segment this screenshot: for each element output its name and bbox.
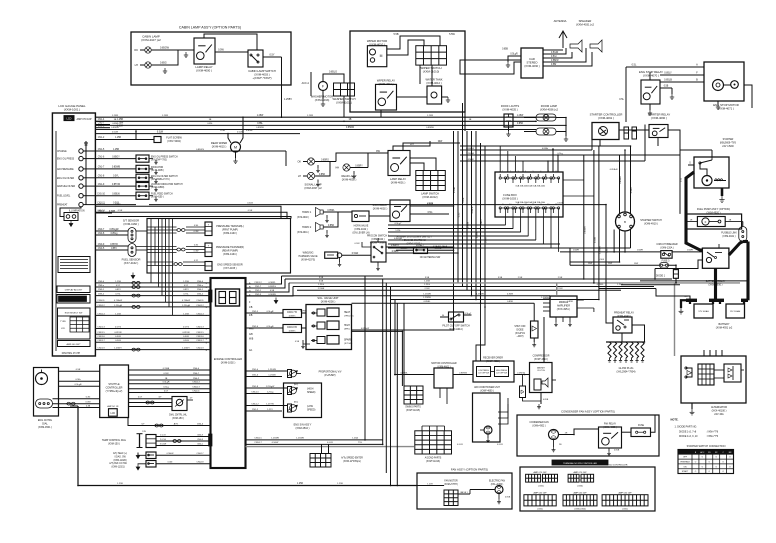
wire diode down	[675, 278, 677, 283]
svg-text:0.3B: 0.3B	[86, 405, 91, 407]
svg-text:(XXM-4163 ): (XXM-4163 )	[223, 232, 237, 235]
signal lamp S2	[307, 172, 314, 179]
svg-text:PREHEAT: PREHEAT	[680, 461, 690, 464]
sensor box internal verticals	[150, 219, 152, 283]
wiper switch grid	[416, 46, 447, 65]
wire fuse pin drop 7	[550, 217, 552, 248]
signal lamp S1	[307, 158, 314, 165]
svg-text:A/B: A/B	[249, 333, 253, 336]
wire row 252	[560, 251, 661, 253]
wire preheat relay bottom	[621, 333, 623, 342]
svg-text:1.25W: 1.25W	[162, 115, 168, 117]
wire stereo-antenna	[543, 49, 563, 51]
svg-text:CN4-6: CN4-6	[197, 423, 204, 425]
svg-text:AMP 070 10P: AMP 070 10P	[76, 118, 91, 121]
svg-text:0.5R: 0.5R	[118, 210, 123, 212]
svg-text:(XX9-4040 ): (XX9-4040 )	[297, 217, 309, 219]
panel type table	[58, 316, 91, 339]
svg-text:(CN5): (CN5)	[538, 486, 544, 488]
wire lamp1 to relay	[151, 49, 194, 51]
procon switch box	[371, 242, 386, 262]
panel row CN1-3	[95, 127, 110, 129]
svg-text:0.75BrW: 0.75BrW	[114, 299, 122, 302]
diode D6	[632, 127, 637, 139]
svg-text:(XXM-4010 ): (XXM-4010 )	[369, 42, 385, 46]
svg-text:1.25WB: 1.25WB	[271, 438, 279, 440]
washer switch grid	[334, 83, 355, 96]
svg-text:0.85RG: 0.85RG	[321, 159, 329, 161]
svg-text:1.25LgR: 1.25LgR	[466, 153, 474, 155]
svg-text:FUSIBLE LINK: FUSIBLE LINK	[721, 233, 737, 235]
wire ctrl to data1	[246, 312, 284, 314]
wire prop valve row2	[246, 376, 283, 378]
svg-text:1.25B: 1.25B	[115, 281, 121, 283]
wire row y212	[95, 212, 287, 218]
battery B1	[694, 304, 713, 318]
svg-text:0.85R: 0.85R	[319, 174, 325, 176]
eng stop motor enclosure	[704, 62, 744, 101]
wire fuse pin drop 8	[558, 217, 560, 252]
compressor box	[530, 363, 553, 393]
wire bundle down to receiver	[480, 303, 482, 361]
svg-text:DATA 8 B: DATA 8 B	[287, 326, 297, 329]
svg-text:0.5Y: 0.5Y	[184, 285, 189, 287]
row y299	[391, 299, 599, 301]
svg-text:CN4-x: CN4-x	[197, 285, 204, 287]
svg-text:: XXM+*7*8: : XXM+*7*8	[706, 431, 719, 433]
sn pot 2	[288, 405, 298, 412]
fuel sensor connector	[128, 244, 136, 257]
svg-text:ELECTRIC FAN: ELECTRIC FAN	[489, 480, 505, 483]
wire indicator out CN1-5	[95, 150, 136, 152]
svg-text:0.85LW: 0.85LW	[112, 194, 120, 196]
wire breaker to relay	[672, 251, 702, 253]
svg-text:SIGN RELAY: SIGN RELAY	[372, 203, 388, 207]
svg-text:TERMINAL NO PIN CONTROLLER: TERMINAL NO PIN CONTROLLER	[563, 462, 597, 465]
wire controller row CN3-x	[95, 286, 210, 288]
wire indicator out CN1-9	[95, 185, 136, 187]
svg-text:(XXM*): (XXM*)	[289, 331, 296, 333]
svg-text:0.3G: 0.3G	[194, 245, 199, 247]
panel box type table label	[58, 308, 91, 316]
svg-text:0.85W: 0.85W	[246, 130, 253, 132]
svg-text:CN2-3: CN2-3	[255, 294, 262, 296]
junction dots right rows	[675, 282, 677, 284]
svg-text:0.3W: 0.3W	[86, 402, 91, 404]
svg-text:(XXM-4001 ): (XXM-4001 )	[391, 180, 406, 184]
svg-text:REAR WIPER: REAR WIPER	[211, 141, 227, 145]
svg-text:0.5Br: 0.5Br	[75, 378, 80, 381]
svg-text:5.5W: 5.5W	[449, 33, 455, 36]
svg-text:0.5LB: 0.5LB	[115, 340, 121, 342]
wiper motor circles	[370, 49, 376, 55]
svg-text:CN4-14: CN4-14	[196, 313, 204, 315]
svg-text:0.5Y: 0.5Y	[164, 390, 169, 392]
svg-text:FUSE-7: FUSE-7	[416, 245, 425, 247]
svg-text:CN2-15: CN2-15	[97, 332, 105, 334]
svg-text:1.25R: 1.25R	[337, 483, 343, 485]
wire wiper top2	[387, 40, 424, 55]
wire fuse3 right	[668, 265, 676, 269]
flat fuse component	[95, 139, 148, 141]
row y295	[246, 295, 550, 297]
starter motor circle	[702, 176, 712, 186]
svg-text:CN1-10: CN1-10	[97, 194, 105, 196]
wire row y425 stub	[128, 418, 135, 426]
svg-text:VALVE 1: VALVE 1	[460, 491, 467, 494]
svg-text:5/Y: 5/Y	[141, 423, 145, 425]
wire controller row CN3-2	[95, 295, 210, 297]
ac diode	[520, 386, 526, 398]
svg-text:CN4-8: CN4-8	[197, 439, 204, 441]
svg-text:3/Y: 3/Y	[158, 397, 162, 399]
gray vert alternator	[674, 283, 676, 356]
svg-text:0.5LgR: 0.5LgR	[267, 311, 274, 313]
svg-text:0.5YG: 0.5YG	[115, 326, 121, 328]
room lamp RL2	[536, 128, 556, 135]
sonar connector	[36, 399, 53, 408]
wire ctrl right r2	[246, 287, 286, 289]
svg-text:1.25W: 1.25W	[257, 115, 264, 117]
row y283 gray	[289, 282, 740, 284]
svg-text:(XXM-11014 ): (XXM-11014 )	[449, 329, 464, 331]
svg-text:1.25B: 1.25B	[115, 137, 121, 139]
wire relay bottom gnd	[608, 448, 610, 451]
wires temp dial right	[156, 436, 211, 438]
svg-text:R1: R1	[708, 452, 710, 454]
panel box display adjust	[57, 286, 90, 293]
starter relay box K3	[649, 125, 668, 138]
svg-text:DIODE 1+2, 7+8: DIODE 1+2, 7+8	[679, 431, 697, 433]
wire relay to switch 2	[227, 51, 248, 53]
svg-text:0.5LgR: 0.5LgR	[510, 54, 518, 56]
svg-text:CN2-1: CN2-1	[255, 290, 262, 292]
eng sn assy box	[284, 383, 322, 418]
svg-text:▸: ▸	[206, 286, 207, 289]
switch ENG OIL FILTER SWITCH	[136, 174, 149, 181]
electric fan circle	[495, 486, 503, 494]
svg-text:0.85YR: 0.85YR	[110, 244, 118, 246]
switch ENG OIL PRESS SWITCH	[136, 155, 149, 162]
svg-text:2.5W: 2.5W	[558, 288, 563, 290]
cabin lamp switch SW1	[248, 50, 263, 67]
svg-text:0.85Y: 0.85Y	[481, 219, 483, 225]
svg-text:(XXM-4200 ): (XXM-4200 )	[321, 299, 336, 303]
svg-text:1.25W: 1.25W	[517, 115, 524, 117]
svg-text:(HIGH: (HIGH	[307, 389, 314, 391]
wire stereo-speaker1	[543, 48, 566, 54]
wire controller row CN2-19	[95, 349, 210, 351]
fuse row bottom	[499, 207, 506, 209]
svg-text:CN2-13: CN2-13	[97, 326, 105, 328]
svg-text:CN2-19: CN2-19	[196, 348, 204, 350]
wire fan link	[458, 493, 470, 495]
wire starter top	[711, 150, 713, 157]
svg-text:1.25B: 1.25B	[117, 119, 123, 121]
svg-text:CUT OFF SW: CUT OFF SW	[478, 373, 489, 375]
svg-text:VACUUM INDICATOR SWITCH: VACUUM INDICATOR SWITCH	[151, 183, 183, 186]
twist pair sensors row1	[177, 229, 186, 232]
wire row y205	[95, 206, 281, 218]
panel box derating black	[57, 295, 90, 304]
svg-text:CN4-17: CN4-17	[197, 453, 205, 455]
svg-text:0.85LW: 0.85LW	[466, 159, 473, 161]
wire indicator out CN1-8	[95, 177, 136, 179]
wire cfan to relay	[559, 434, 575, 436]
svg-text:S20 CONTROLLER: S20 CONTROLLER	[609, 465, 628, 467]
starter switch SW10	[616, 212, 635, 231]
svg-text:START: START	[682, 470, 689, 473]
svg-text:1.25B: 1.25B	[424, 281, 430, 283]
receiver link	[491, 371, 495, 373]
svg-text:0.85RL: 0.85RL	[327, 210, 335, 212]
svg-text:0.3W: 0.3W	[194, 231, 199, 233]
svg-text:HH: HH	[335, 167, 339, 170]
wire row y425	[135, 425, 211, 427]
wire rear wiper top	[228, 134, 231, 143]
svg-text:0.5B: 0.5B	[270, 290, 275, 292]
middle amplifier box U5	[550, 296, 577, 317]
svg-text:LCD: LCD	[111, 413, 116, 415]
wire illumination out	[95, 212, 112, 214]
svg-text:2 0.5G: 2 0.5G	[160, 439, 166, 441]
svg-text:0.75L: 0.75L	[115, 294, 121, 296]
svg-text:1.25L: 1.25L	[395, 230, 401, 232]
svg-text:M: M	[234, 146, 237, 150]
wire ac left stub2	[403, 375, 405, 387]
svg-text:CABIN LAMP SWITCH: CABIN LAMP SWITCH	[248, 69, 276, 73]
svg-text:0.85GY: 0.85GY	[112, 156, 120, 158]
wire fusible up	[742, 222, 744, 227]
svg-text:0.85W: 0.85W	[468, 222, 470, 228]
svg-text:CN4-13: CN4-13	[192, 387, 200, 389]
svg-text:0.5Rm: 0.5Rm	[392, 251, 399, 253]
svg-text:1.25Y: 1.25Y	[267, 409, 273, 411]
svg-text:LCD: LCD	[61, 328, 66, 330]
svg-text:CN4-18: CN4-18	[197, 462, 205, 464]
svg-text:R2: R2	[715, 452, 717, 454]
svg-text:WATER TANK: WATER TANK	[425, 78, 442, 82]
gray row y446	[246, 446, 415, 448]
power shutdown switch box	[414, 247, 428, 254]
svg-text:3.5B: 3.5B	[498, 277, 503, 279]
svg-text:0.5YG: 0.5YG	[183, 326, 189, 328]
svg-text:(XXM-4037 )x2: (XXM-4037 )x2	[304, 186, 322, 190]
wires twist to P2	[186, 246, 205, 248]
wire vert x570	[569, 248, 571, 265]
svg-text:FAN RELAY: FAN RELAY	[604, 423, 617, 426]
svg-text:SPEAKER: SPEAKER	[579, 19, 592, 23]
wiper ctrl bottom pins	[439, 388, 441, 398]
bus line 3	[95, 124, 566, 126]
wire wiper sw down1	[419, 65, 421, 84]
svg-text:(XXM-4107 )x2: (XXM-4107 )x2	[141, 38, 161, 42]
svg-text:ROOF LIGHTS: ROOF LIGHTS	[501, 104, 519, 108]
svg-text:(XXM-11012): (XXM-11012)	[422, 195, 437, 199]
svg-text:CN3-11: CN3-11	[97, 300, 105, 302]
svg-text:LH: LH	[135, 63, 138, 67]
svg-text:5.5B: 5.5B	[393, 33, 398, 36]
svg-text:CN1-4: CN1-4	[98, 119, 105, 121]
wire relay to fusible	[622, 431, 632, 433]
svg-text:CN3-15: CN3-15	[254, 438, 262, 440]
svg-text:0.5LB: 0.5LB	[247, 202, 253, 204]
alternator wires internal	[714, 369, 724, 371]
svg-text:0.5G: 0.5G	[428, 212, 433, 214]
starter switch table	[678, 450, 734, 474]
speaker SP2	[590, 40, 602, 52]
svg-text:(XXM-4013): (XXM-4013)	[315, 98, 330, 102]
ground horn2	[326, 230, 328, 233]
svg-text:WIND/SIG: WIND/SIG	[303, 253, 314, 255]
illumination wire	[60, 207, 81, 217]
lamp relay K4	[388, 151, 410, 176]
svg-text:CN4-2: CN4-2	[197, 294, 204, 296]
svg-text:RECEIVER DRIER: RECEIVER DRIER	[483, 358, 503, 360]
svg-text:CLUTCH: CLUTCH	[537, 370, 545, 372]
swing grid table	[404, 386, 423, 404]
wire right drops to batteries	[747, 277, 749, 281]
twist pair sensors row2	[177, 248, 186, 251]
svg-text:CUT OFF SW: CUT OFF SW	[496, 373, 507, 375]
svg-text:ANTENNA: ANTENNA	[554, 19, 567, 23]
wire stereo-speaker2	[543, 52, 572, 58]
svg-text:CN3-8: CN3-8	[98, 233, 105, 235]
wire controller row CN2-17	[95, 341, 210, 343]
wire compressor down	[540, 393, 542, 405]
svg-text:PROPORTIONAL V/V: PROPORTIONAL V/V	[319, 371, 342, 374]
wire rows right 280-288	[640, 280, 748, 282]
pressure sensor connector P3	[205, 262, 212, 271]
wire cfan gnd	[553, 440, 555, 448]
wire procon right2	[386, 252, 458, 254]
wire relay-motor3	[660, 81, 704, 83]
wire cabin drop to bus	[281, 57, 283, 117]
middle amplifier right stubs	[577, 299, 584, 301]
wire lamprelay top	[393, 141, 430, 151]
wire ctrl right r4	[246, 295, 294, 297]
svg-text:(XXM-4501 ): (XXM-4501 )	[38, 426, 52, 429]
svg-text:0.85R: 0.85R	[517, 123, 523, 125]
svg-text:1.25RW: 1.25RW	[541, 297, 549, 299]
svg-text:0.5LgR: 0.5LgR	[163, 382, 170, 384]
svg-text:(XXM-4030 ): (XXM-4030 )	[524, 64, 539, 68]
svg-text:1.25G: 1.25G	[617, 284, 623, 286]
wire shutdown right	[428, 249, 454, 251]
svg-text:0.75L: 0.75L	[183, 294, 189, 296]
wire preheat row long	[149, 204, 606, 206]
eng stop motor circle	[713, 80, 724, 91]
wires twist to P1	[186, 226, 205, 228]
svg-text:0.5W: 0.5W	[355, 243, 360, 245]
heavy cable relay to fusible	[729, 242, 743, 256]
svg-text:CN2-7: CN2-7	[255, 286, 262, 288]
wire charge row long	[95, 150, 286, 152]
battery B2	[726, 304, 745, 318]
svg-text:CN3-1: CN3-1	[98, 289, 105, 291]
svg-text:1/W: 1/W	[142, 431, 146, 433]
svg-text:A/COND PARTS: A/COND PARTS	[425, 457, 442, 460]
svg-text:FUSE BOX: FUSE BOX	[503, 193, 517, 197]
svg-text:0.85YW: 0.85YW	[112, 184, 121, 186]
switch VACUUM INDICATOR SWITCH	[136, 183, 149, 190]
svg-text:0.85RrB: 0.85RrB	[459, 371, 467, 374]
svg-text:CN3-17: CN3-17	[254, 442, 262, 444]
svg-text:0.5RPB: 0.5RPB	[268, 294, 276, 296]
wire ac left stub	[394, 346, 396, 375]
ac fan	[484, 426, 492, 434]
eng stop relay K2	[641, 80, 660, 104]
panel row CN1-2	[95, 124, 110, 126]
wire shutdown left	[396, 249, 414, 251]
svg-text:1.25LgB: 1.25LgB	[182, 305, 190, 307]
sonar box	[34, 368, 59, 417]
svg-text:(XXM-4012 ): (XXM-4012 )	[426, 81, 441, 85]
wire fuse pin drop 1	[504, 217, 506, 225]
wire data1 to rvu	[302, 312, 307, 314]
wire motor box gnd	[717, 101, 719, 104]
wire startersw down3	[630, 230, 632, 249]
wire box right edge drop	[464, 112, 466, 131]
sn pot 1	[288, 387, 298, 394]
svg-text:AIR/FUEL FILTER: AIR/FUEL FILTER	[57, 185, 76, 188]
row y276	[282, 275, 384, 277]
temp control dial component	[139, 434, 141, 448]
wire ac vertical x395	[394, 300, 396, 375]
svg-text:30Y: 30Y	[410, 144, 414, 146]
svg-text:(XXM-4000 ): (XXM-4000 )	[196, 68, 212, 72]
svg-text:(P+PUMP): (P+PUMP)	[324, 375, 335, 377]
wire startersw down2	[624, 231, 626, 252]
svg-text:CN4-12: CN4-12	[196, 305, 204, 307]
wire swing vertical x404	[403, 303, 405, 386]
wire flat fuse drop	[136, 131, 148, 140]
svg-text:OK: OK	[297, 161, 301, 164]
wire room lamp leads2	[524, 131, 536, 133]
wire lamp feed right	[368, 152, 388, 154]
svg-text:0.85B: 0.85B	[502, 49, 508, 51]
heavy battery bars	[686, 299, 697, 302]
svg-text:0.5RmY: 0.5RmY	[391, 245, 400, 247]
starter coil	[714, 180, 726, 182]
wire ctrl bottom	[560, 140, 600, 147]
condenser fan circle	[549, 430, 559, 440]
illumination lamp box	[64, 213, 78, 221]
svg-text:0.85Lg: 0.85Lg	[111, 233, 119, 235]
svg-text:(XXM-4510 ): (XXM-4510 )	[296, 427, 310, 430]
svg-text:CN2-19: CN2-19	[97, 348, 105, 350]
fuel pump assy box	[686, 214, 742, 229]
svg-text:(XXM-150 ): (XXM-150 )	[172, 418, 184, 420]
svg-text:0.3Y: 0.3Y	[194, 260, 199, 262]
wire relay to switch	[215, 51, 227, 53]
wire battery gnd	[681, 300, 686, 308]
svg-text:0.85GW: 0.85GW	[160, 47, 170, 50]
svg-text:1.25G: 1.25G	[424, 284, 430, 286]
wire controller row CN2-16	[95, 337, 210, 339]
lamp switch grid	[416, 171, 446, 191]
svg-text:0.5GB: 0.5GB	[454, 186, 456, 193]
room lamp RL1	[536, 114, 556, 121]
wire horn2	[323, 212, 338, 227]
svg-text:0.85RL: 0.85RL	[424, 301, 432, 303]
svg-text:0.5Gr: 0.5Gr	[551, 56, 557, 58]
svg-text:0.85R: 0.85R	[507, 301, 513, 303]
svg-text:(XXM-4090 ): (XXM-4090 )	[651, 116, 667, 120]
wire ac row mid	[453, 374, 473, 376]
auto speed enter grid	[310, 454, 331, 468]
svg-text:CN3-x: CN3-x	[98, 285, 105, 287]
